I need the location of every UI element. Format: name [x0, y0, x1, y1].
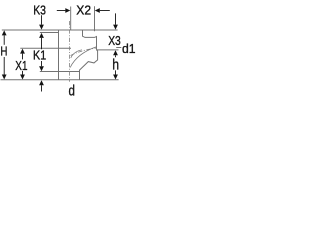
branch axis centerline [71, 48, 97, 56]
centerlines [70, 21, 97, 82]
dim X2 right tail [100, 10, 110, 12]
wire d1 leader [116, 47, 121, 49]
wire K1 bottom socket shoulder L4 [40, 71, 80, 73]
arrow X2 right [65, 8, 70, 13]
dim K3 tail [41, 15, 43, 24]
dim h bottom tail [115, 70, 117, 74]
svg-text:X2: X2 [76, 2, 91, 17]
arrow X3 down [113, 25, 118, 30]
vertical centerline [69, 21, 71, 82]
left wall [58, 30, 60, 80]
arrow X1 up [20, 49, 25, 54]
dim X3 tail [115, 13, 117, 24]
bottom socket tail [41, 85, 43, 91]
arrow X1 down [20, 75, 25, 80]
arrow X3/h up [113, 50, 118, 55]
svg-text:d1: d1 [122, 41, 136, 56]
right upper wall and branch socket [83, 30, 97, 50]
wire bottom face line L5 [1, 79, 119, 81]
labels [0, 2, 135, 99]
inner sweep curve upper [71, 50, 82, 58]
arrow bottom socket up [39, 80, 44, 85]
svg-text:h: h [112, 56, 119, 73]
wire side outlet ref line [97, 49, 119, 51]
wire X2 left extension [70, 7, 72, 31]
svg-text:K3: K3 [33, 2, 46, 17]
wire X2 right extension [94, 6, 96, 31]
arrow K1 down [39, 66, 44, 71]
arrow H up [2, 30, 7, 35]
arrow H down [2, 75, 7, 80]
fitting body outline [1, 30, 122, 80]
dim X3/h shared tail [115, 55, 117, 57]
inner sweep curve lower [70, 47, 96, 68]
dim X1 tails [22, 54, 24, 60]
wire horizontal centerline ref L3 [20, 47, 71, 49]
arrow h down [113, 75, 118, 80]
wire K3 lower ref line L2 [40, 32, 59, 34]
dim H tails [3, 35, 5, 44]
arrow X2 left [95, 8, 100, 13]
svg-text:X1: X1 [15, 58, 27, 73]
svg-text:X3: X3 [108, 33, 121, 48]
svg-text:H: H [0, 44, 7, 59]
dimension lines and arrows (black) [4, 11, 115, 92]
X2 extension lines [71, 6, 95, 31]
svg-text:K1: K1 [33, 48, 46, 63]
svg-text:d: d [69, 84, 75, 100]
branch socket flare and lower right wall [80, 50, 98, 80]
dim K1 tails [41, 38, 43, 49]
dim X2 left tail [57, 10, 66, 12]
arrow K3 down [39, 25, 44, 30]
arrow K3/K1 up [39, 33, 44, 38]
wire top face line L1 [2, 29, 118, 31]
